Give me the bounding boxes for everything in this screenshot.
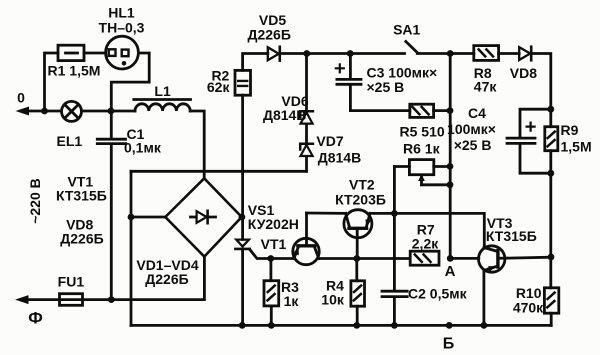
wire VD5 to C3 node	[280, 52, 350, 55]
wire L1 to bridge top	[190, 111, 204, 178]
transistor VT1	[293, 213, 319, 265]
svg-text:×25 В: ×25 В	[454, 137, 492, 153]
wire bottom rail	[131, 324, 551, 327]
svg-text:0: 0	[17, 90, 25, 106]
wire left loop (minus)	[130, 171, 133, 325]
svg-text:А: А	[445, 263, 456, 280]
wire R2 down to bridge right vertex	[241, 95, 244, 239]
svg-text:HL1: HL1	[108, 5, 135, 21]
svg-text:×25 В: ×25 В	[367, 79, 405, 95]
wire gate node to VT1 emitter	[271, 257, 294, 260]
wire F-line to bridge bottom	[83, 257, 205, 300]
wire node down to C1	[110, 111, 113, 138]
svg-text:62к: 62к	[207, 79, 231, 95]
capacitor C2	[382, 291, 407, 296]
node R5 right junction	[447, 107, 454, 114]
svg-text:10к: 10к	[321, 292, 345, 308]
wire SA1 to rail	[417, 52, 450, 55]
wire VT2 collector to VT1 base corner	[307, 212, 346, 215]
wire node A to VT3	[450, 257, 479, 260]
wire R1 left riser	[45, 53, 59, 111]
svg-text:Д226Б: Д226Б	[145, 271, 188, 287]
variable resistor R6	[409, 160, 450, 185]
svg-text:КТ315Б: КТ315Б	[486, 228, 537, 244]
resistor R4	[351, 259, 365, 326]
diode bridge VD1-VD4	[165, 178, 241, 256]
wire left vertex link	[131, 216, 165, 219]
transistor VT2	[344, 210, 372, 259]
capacitor C4 polarized	[507, 109, 551, 173]
node VT2 base / R4 junction	[353, 255, 360, 262]
wire VT2 emitter line to VT3 collector	[370, 213, 484, 248]
node bridge left vertex junction	[128, 214, 135, 221]
wire VT3 emitter to bottom rail	[482, 270, 485, 325]
thyristor VS1	[235, 240, 270, 259]
wire VD6 up to top rail	[305, 54, 308, 112]
diode VD5	[268, 47, 280, 61]
svg-text:Д814В: Д814В	[263, 107, 306, 123]
svg-text:VD7: VD7	[316, 133, 343, 149]
fuse FU1	[60, 294, 83, 306]
wire top rail start / R2 riser	[243, 54, 268, 71]
lamp EL1	[62, 101, 82, 121]
wire C1 down to F-line	[110, 145, 113, 300]
resistor R3	[264, 259, 279, 326]
node R6 right junction	[447, 163, 454, 170]
svg-text:КТ203Б: КТ203Б	[335, 192, 386, 208]
svg-text:Б: Б	[443, 336, 455, 353]
wire EL1 to node	[82, 110, 111, 113]
node emitter-line / R6-left vertical junction	[391, 210, 398, 217]
node VT3 base right junction	[548, 254, 555, 261]
svg-text:47к: 47к	[474, 79, 498, 95]
resistor R9	[545, 109, 558, 173]
svg-text:SA1: SA1	[393, 22, 420, 38]
wire between VD7 and VD6	[305, 125, 308, 144]
node R6 wiper junction	[447, 181, 454, 188]
svg-text:R5 510: R5 510	[400, 124, 445, 140]
wire y171 line to zeners	[131, 170, 307, 173]
node zener top rail junction	[303, 50, 310, 57]
wire R1 to HL1	[84, 52, 106, 55]
svg-text:КУ202Н: КУ202Н	[248, 216, 299, 232]
node A junction	[447, 255, 454, 262]
svg-text:VD8: VD8	[510, 65, 537, 81]
wire R6 left link	[394, 165, 409, 168]
wire R6-left vertical	[393, 167, 396, 291]
node rail R3	[268, 322, 275, 329]
wire zener column lower	[305, 157, 308, 172]
wire x450 vertical	[449, 54, 452, 259]
diode VD8	[519, 47, 531, 61]
wire C2 to bottom rail	[393, 298, 396, 326]
wire 0-line left segment with arrow	[16, 107, 45, 116]
resistor R5	[410, 104, 450, 117]
svg-text:VT1: VT1	[261, 236, 287, 252]
resistor R1	[58, 45, 84, 60]
resistor R7	[410, 251, 439, 265]
node VS1 gate junction	[267, 255, 274, 262]
svg-text:2,2к: 2,2к	[412, 236, 439, 252]
node C3 top junction	[347, 50, 354, 57]
svg-text:FU1: FU1	[58, 274, 85, 290]
svg-text:Д814В: Д814В	[318, 150, 361, 166]
wire HL1 right to node	[111, 53, 149, 111]
zener VD6	[300, 111, 313, 123]
node main junction (EL1/L1/C1/HL1)	[108, 108, 115, 115]
capacitor C3 polarized	[336, 54, 410, 111]
svg-text:0,1мк: 0,1мк	[124, 140, 162, 156]
wire node to L1	[111, 110, 135, 113]
svg-text:470к: 470к	[513, 300, 544, 316]
resistor R8	[474, 46, 499, 61]
node C4 top junction	[547, 106, 554, 113]
svg-text:R6 1к: R6 1к	[403, 141, 441, 157]
neon lamp HL1	[106, 36, 139, 69]
svg-text:КТ315Б: КТ315Б	[56, 188, 107, 204]
wire 0-line to EL1	[45, 110, 62, 113]
node C1/F-line junction	[108, 296, 115, 303]
svg-text:1,5М: 1,5М	[561, 139, 592, 155]
wire R8 to VD8	[499, 52, 520, 55]
svg-text:VT2: VT2	[349, 177, 375, 193]
capacitor C1	[97, 139, 125, 143]
svg-text:~220 В: ~220 В	[27, 178, 43, 224]
svg-text:Д226Б: Д226Б	[60, 231, 103, 247]
svg-text:100мк×: 100мк×	[447, 121, 496, 137]
wire VD8 to right rail corner	[531, 54, 551, 110]
node bridge right vertex junction	[239, 214, 246, 221]
node rail VT3 emitter	[481, 322, 488, 329]
node rail VS1 cathode	[239, 322, 246, 329]
wire VS1 cathode to bottom rail	[241, 249, 244, 326]
svg-text:С4: С4	[468, 105, 486, 121]
svg-text:L1: L1	[154, 83, 171, 99]
wire rail to R8	[450, 52, 474, 55]
bridge internal diode symbol	[191, 211, 216, 223]
svg-text:С2 0,5мк: С2 0,5мк	[408, 286, 468, 302]
svg-text:EL1: EL1	[57, 133, 83, 149]
wire VT1 collector line to R7	[319, 257, 410, 260]
resistor R2	[235, 70, 251, 95]
node junction R1-left on 0-line	[41, 108, 48, 115]
switch SA1	[406, 42, 418, 53]
node B marker	[446, 322, 453, 329]
svg-text:R9: R9	[561, 122, 579, 138]
transistor VT3	[479, 246, 552, 272]
node C4 bottom junction	[547, 170, 554, 177]
wire rail to SA1	[350, 52, 404, 55]
node SA1 right junction	[447, 50, 454, 57]
svg-text:ТН–0,3: ТН–0,3	[99, 20, 145, 36]
svg-text:Д226Б: Д226Б	[247, 27, 290, 43]
svg-text:1к: 1к	[284, 293, 300, 309]
svg-text:R1 1,5M: R1 1,5M	[48, 63, 101, 79]
wire F-line with arrow	[15, 295, 60, 304]
inductor L1	[134, 100, 191, 112]
node rail R4	[353, 322, 360, 329]
wire right column mid	[549, 173, 552, 288]
svg-text:Ф: Ф	[28, 309, 43, 328]
node rail C2	[391, 322, 398, 329]
resistor R10	[544, 288, 558, 326]
zener VD7	[300, 144, 313, 156]
